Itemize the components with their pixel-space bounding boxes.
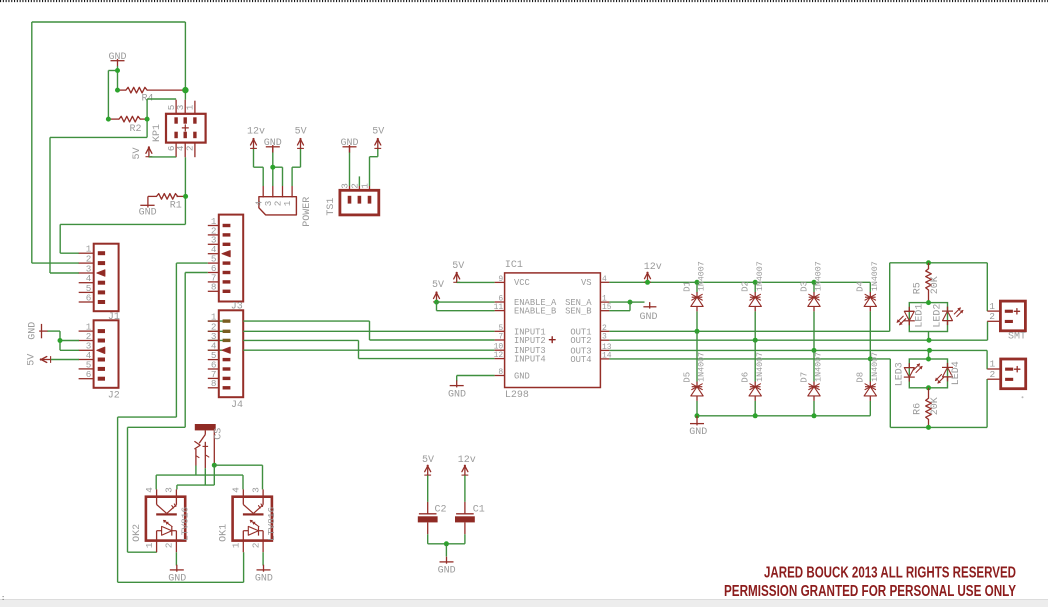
svg-text:5V: 5V (432, 280, 444, 291)
svg-text:OUT4: OUT4 (570, 355, 591, 365)
svg-text:CS: CS (214, 428, 225, 440)
svg-text:5V: 5V (295, 126, 307, 137)
svg-text:LED1: LED1 (915, 304, 926, 328)
svg-text:11: 11 (494, 303, 504, 312)
svg-text:1N4007: 1N4007 (698, 261, 707, 291)
svg-text:D3: D3 (799, 281, 809, 292)
svg-text:3: 3 (250, 487, 261, 493)
svg-text:7: 7 (498, 333, 503, 342)
svg-text:R1: R1 (170, 200, 182, 211)
svg-text:4: 4 (602, 275, 607, 284)
svg-text:OK2: OK2 (132, 524, 143, 542)
svg-text:3: 3 (602, 333, 607, 342)
svg-text:R5: R5 (913, 282, 924, 294)
svg-text:20K: 20K (930, 397, 941, 415)
svg-text:GND: GND (28, 322, 39, 340)
svg-text:KP1: KP1 (152, 124, 163, 142)
svg-text:5V: 5V (422, 455, 434, 466)
svg-text:D7: D7 (799, 372, 809, 383)
svg-text:GND: GND (168, 574, 186, 585)
svg-text:1: 1 (144, 542, 155, 548)
svg-text:ENABLE_B: ENABLE_B (514, 306, 556, 316)
svg-text:PERMISSION GRANTED FOR PERSONA: PERMISSION GRANTED FOR PERSONAL USE ONLY (724, 583, 1016, 600)
svg-text:D1: D1 (682, 281, 692, 292)
svg-text:1N4007: 1N4007 (698, 352, 707, 382)
svg-text:C1: C1 (473, 504, 485, 515)
svg-text:6: 6 (86, 369, 92, 380)
svg-text:2: 2 (989, 369, 995, 380)
svg-text:2: 2 (185, 146, 196, 152)
svg-text:GND: GND (448, 389, 466, 400)
svg-text:C2: C2 (435, 504, 447, 515)
svg-text:1: 1 (282, 200, 293, 206)
svg-text:JARED BOUCK 2013 ALL RIGHTS RE: JARED BOUCK 2013 ALL RIGHTS RESERVED (764, 565, 1016, 582)
svg-text:LTV816: LTV816 (179, 507, 190, 542)
svg-text:12v: 12v (458, 455, 476, 466)
svg-text:GND: GND (639, 312, 657, 323)
svg-text:INPUT2: INPUT2 (514, 336, 546, 346)
svg-text:8: 8 (211, 282, 217, 293)
svg-text:LED4: LED4 (951, 361, 962, 385)
svg-text:SMT: SMT (1008, 332, 1026, 343)
svg-text:1N4007: 1N4007 (871, 352, 880, 382)
svg-text:1: 1 (185, 104, 196, 110)
svg-text:8: 8 (211, 378, 217, 389)
svg-text:D4: D4 (856, 281, 866, 292)
svg-text:LED3: LED3 (894, 362, 905, 386)
svg-text:5V: 5V (452, 261, 464, 272)
svg-text:1: 1 (231, 542, 242, 548)
svg-text:20K: 20K (930, 276, 941, 294)
svg-text:OUT2: OUT2 (570, 336, 591, 346)
svg-text:GND: GND (139, 207, 157, 218)
svg-text::: : (1, 595, 5, 603)
svg-text:5V: 5V (27, 354, 38, 366)
svg-text:VCC: VCC (514, 278, 530, 288)
svg-text:1N4007: 1N4007 (815, 352, 824, 382)
svg-text:1N4007: 1N4007 (756, 352, 765, 382)
svg-text:R2: R2 (130, 124, 142, 135)
svg-text:D8: D8 (856, 372, 866, 383)
svg-text:OK1: OK1 (219, 524, 230, 542)
svg-text:2: 2 (602, 324, 607, 333)
svg-text:GND: GND (255, 574, 273, 585)
svg-text:L298: L298 (505, 390, 529, 401)
svg-text:1N4007: 1N4007 (815, 261, 824, 291)
svg-text:R6: R6 (913, 403, 924, 415)
svg-text:4: 4 (144, 487, 155, 493)
svg-text:GND: GND (108, 52, 126, 63)
svg-text:12v: 12v (247, 126, 265, 137)
svg-text:D2: D2 (741, 281, 751, 292)
svg-text:2: 2 (989, 311, 995, 322)
svg-text:2: 2 (164, 542, 175, 548)
svg-text:8: 8 (498, 368, 503, 377)
svg-text:5V: 5V (132, 147, 143, 159)
svg-text:LTV816: LTV816 (266, 507, 277, 542)
svg-text:3: 3 (164, 487, 175, 493)
svg-text:TS1: TS1 (326, 198, 337, 216)
svg-text:6: 6 (86, 292, 92, 303)
svg-text:5V: 5V (372, 126, 384, 137)
svg-text:12v: 12v (644, 262, 662, 273)
svg-text:5: 5 (498, 324, 503, 333)
svg-text:9: 9 (498, 275, 503, 284)
svg-text:2: 2 (250, 542, 261, 548)
svg-text:D6: D6 (741, 372, 751, 383)
svg-text:GND: GND (514, 371, 530, 381)
svg-text:1N4007: 1N4007 (871, 261, 880, 291)
svg-text:4: 4 (231, 487, 242, 493)
svg-text:1N4007: 1N4007 (756, 261, 765, 291)
svg-text:J2: J2 (108, 391, 120, 402)
svg-text:GND: GND (438, 566, 456, 577)
svg-text:INPUT4: INPUT4 (514, 355, 546, 365)
svg-text:J4: J4 (231, 400, 243, 411)
svg-text:12: 12 (494, 351, 504, 360)
svg-text:IC1: IC1 (505, 260, 523, 271)
svg-text:VS: VS (581, 278, 592, 288)
svg-text:LED2: LED2 (933, 304, 944, 328)
svg-text:GND: GND (689, 427, 707, 438)
svg-text:D5: D5 (682, 372, 692, 383)
svg-text:SEN_B: SEN_B (565, 306, 591, 316)
svg-text:POWER: POWER (302, 197, 313, 227)
